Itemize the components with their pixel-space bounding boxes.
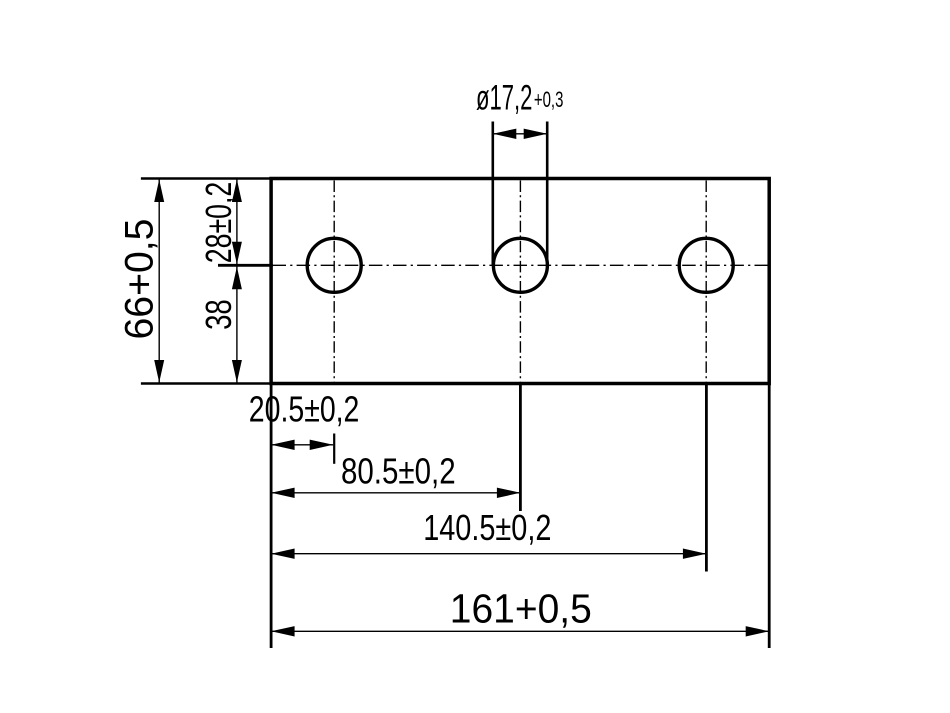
- svg-text:80.5±0,2: 80.5±0,2: [341, 450, 456, 491]
- extension line dia right: [546, 122, 549, 266]
- dimension line dia 17,2: [493, 129, 547, 139]
- extension line dia left: [491, 122, 494, 266]
- svg-text:140.5±0,2: 140.5±0,2: [423, 507, 551, 548]
- extension line hole2: [519, 384, 522, 511]
- extension line hole1 tick: [333, 434, 335, 464]
- centerline vertical hole H1: [333, 181, 335, 382]
- centerline left extension (28/38 junction): [218, 264, 273, 267]
- centerline vertical hole H2: [519, 181, 521, 382]
- svg-text:66+0,5: 66+0,5: [118, 219, 162, 340]
- svg-text:38: 38: [198, 299, 239, 330]
- centerline vertical hole H3: [705, 181, 707, 382]
- centerline horizontal through holes: [273, 264, 768, 266]
- svg-text:28±0,2: 28±0,2: [198, 182, 239, 264]
- hole H3: [679, 238, 733, 292]
- extension line bottom left edge: [270, 384, 273, 648]
- plate outline: [271, 179, 769, 384]
- svg-text:+0,3: +0,3: [534, 87, 564, 112]
- dimension line 66: [154, 179, 164, 384]
- dimension line 161: [271, 626, 769, 636]
- dimension line 38: [232, 265, 242, 383]
- extension line bottom right edge: [768, 384, 771, 648]
- dimension line 28: [232, 179, 242, 266]
- extension line hole3: [705, 384, 708, 572]
- extension line 66 top: [141, 177, 273, 179]
- extension line 66 bottom: [141, 382, 273, 384]
- svg-text:20.5±0,2: 20.5±0,2: [249, 389, 360, 430]
- hole H2: [493, 238, 547, 292]
- hole H1: [307, 238, 361, 292]
- svg-text:161+0,5: 161+0,5: [450, 586, 592, 632]
- dimension line 20.5: [271, 440, 333, 450]
- svg-text:ø17,2: ø17,2: [476, 79, 532, 118]
- dimension line 80.5: [271, 488, 520, 498]
- dimension line 140.5: [271, 549, 706, 559]
